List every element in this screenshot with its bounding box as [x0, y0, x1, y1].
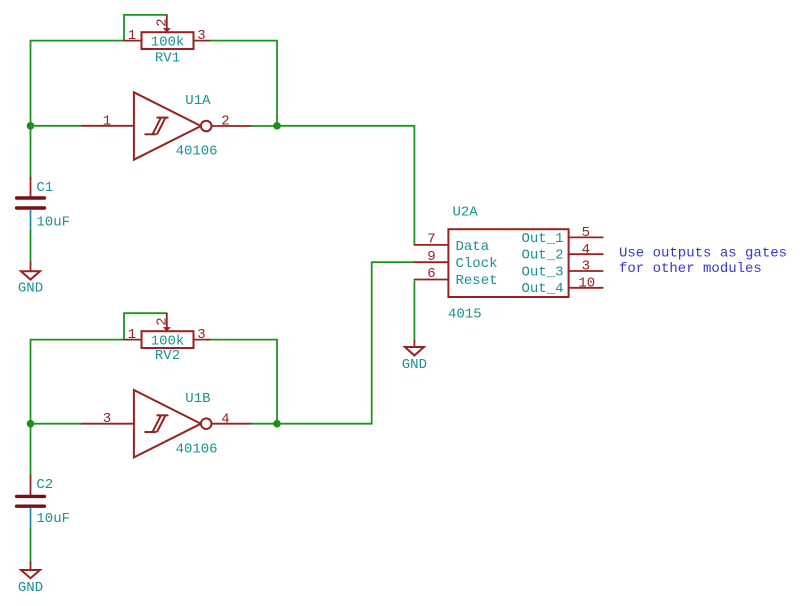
wire output U1A	[252, 125, 278, 127]
wire output to RV2 pin3	[211, 340, 277, 424]
svg-text:4: 4	[582, 242, 590, 258]
svg-text:9: 9	[427, 249, 435, 265]
svg-text:1: 1	[128, 327, 136, 343]
wire left feedback top B	[31, 339, 125, 341]
U2A pin 5 Out_1	[569, 236, 603, 238]
ground symbol B	[21, 562, 40, 578]
svg-text:3: 3	[197, 327, 205, 343]
wire left vertical A	[30, 41, 32, 178]
junction B input	[27, 420, 35, 428]
svg-text:GND: GND	[18, 281, 43, 297]
svg-text:3: 3	[197, 28, 205, 44]
svg-text:40106: 40106	[176, 144, 218, 160]
potentiometer RV1	[124, 15, 211, 49]
svg-text:Out_1: Out_1	[521, 231, 563, 247]
U2A pin 9 Clock	[414, 261, 448, 263]
U2A pin 7 Data	[414, 244, 448, 246]
junction B output	[273, 420, 281, 428]
svg-text:Data: Data	[456, 239, 490, 255]
svg-text:Out_2: Out_2	[521, 248, 563, 264]
svg-text:40106: 40106	[176, 441, 218, 457]
svg-text:2: 2	[155, 18, 171, 26]
svg-text:C2: C2	[36, 477, 53, 493]
wire RV2 wiper loop	[124, 313, 167, 339]
svg-text:10uF: 10uF	[36, 214, 70, 230]
wire reset to ground	[413, 281, 415, 341]
svg-text:U1B: U1B	[185, 391, 210, 407]
svg-text:U1A: U1A	[185, 93, 211, 109]
junction A input	[27, 122, 35, 130]
svg-text:RV1: RV1	[155, 50, 180, 66]
svg-text:2: 2	[155, 317, 171, 325]
svg-text:10: 10	[578, 275, 595, 291]
U2A pin 6 Reset	[414, 279, 448, 281]
svg-text:RV2: RV2	[155, 348, 180, 364]
svg-text:Reset: Reset	[456, 273, 498, 289]
wire left feedback top A	[31, 40, 125, 42]
wire left vertical B	[30, 340, 32, 476]
IC U2A body	[448, 229, 568, 297]
wire C2 to ground	[30, 528, 32, 562]
wire input U1A	[31, 125, 83, 127]
wire output U1B	[252, 423, 278, 425]
svg-text:2: 2	[221, 114, 229, 130]
wire input U1B	[31, 423, 83, 425]
svg-text:GND: GND	[402, 357, 427, 373]
svg-text:C1: C1	[36, 180, 53, 196]
svg-text:Clock: Clock	[456, 256, 498, 272]
ground symbol U2A	[405, 341, 424, 356]
U2A pin 10 Out_4	[569, 287, 603, 289]
capacitor C1	[17, 178, 45, 231]
svg-text:1: 1	[103, 113, 111, 129]
svg-text:3: 3	[582, 259, 590, 275]
svg-text:6: 6	[427, 266, 435, 282]
op-amp U1B (schmitt inverter)	[82, 390, 252, 457]
junction A output	[273, 122, 281, 130]
svg-text:Out_4: Out_4	[521, 281, 563, 297]
svg-text:5: 5	[582, 225, 590, 241]
svg-text:1: 1	[128, 28, 136, 44]
svg-text:Use outputs as gates: Use outputs as gates	[619, 246, 787, 262]
svg-text:7: 7	[427, 232, 435, 248]
svg-text:U2A: U2A	[453, 205, 479, 221]
svg-text:4: 4	[221, 411, 229, 427]
svg-text:Out_3: Out_3	[521, 264, 563, 280]
U2A pin 3 Out_3	[569, 270, 603, 272]
svg-text:3: 3	[103, 411, 111, 427]
svg-text:for other modules: for other modules	[619, 261, 762, 277]
wire RV1 wiper loop	[124, 15, 167, 41]
capacitor C2	[17, 476, 45, 528]
ground symbol A	[21, 263, 40, 280]
wire output to RV1 pin3	[211, 41, 277, 126]
svg-text:10uF: 10uF	[36, 511, 70, 527]
wire U1B output to U2A clock	[277, 262, 414, 424]
svg-text:GND: GND	[18, 580, 43, 596]
op-amp U1A (schmitt inverter)	[82, 92, 252, 159]
svg-text:100k: 100k	[151, 35, 185, 51]
svg-text:100k: 100k	[151, 333, 185, 349]
wire U1A output to U2A data	[277, 126, 414, 245]
svg-text:4015: 4015	[448, 306, 482, 322]
potentiometer RV2	[124, 314, 211, 349]
U2A pin 4 Out_2	[569, 253, 603, 255]
wire C1 to ground	[30, 231, 32, 263]
